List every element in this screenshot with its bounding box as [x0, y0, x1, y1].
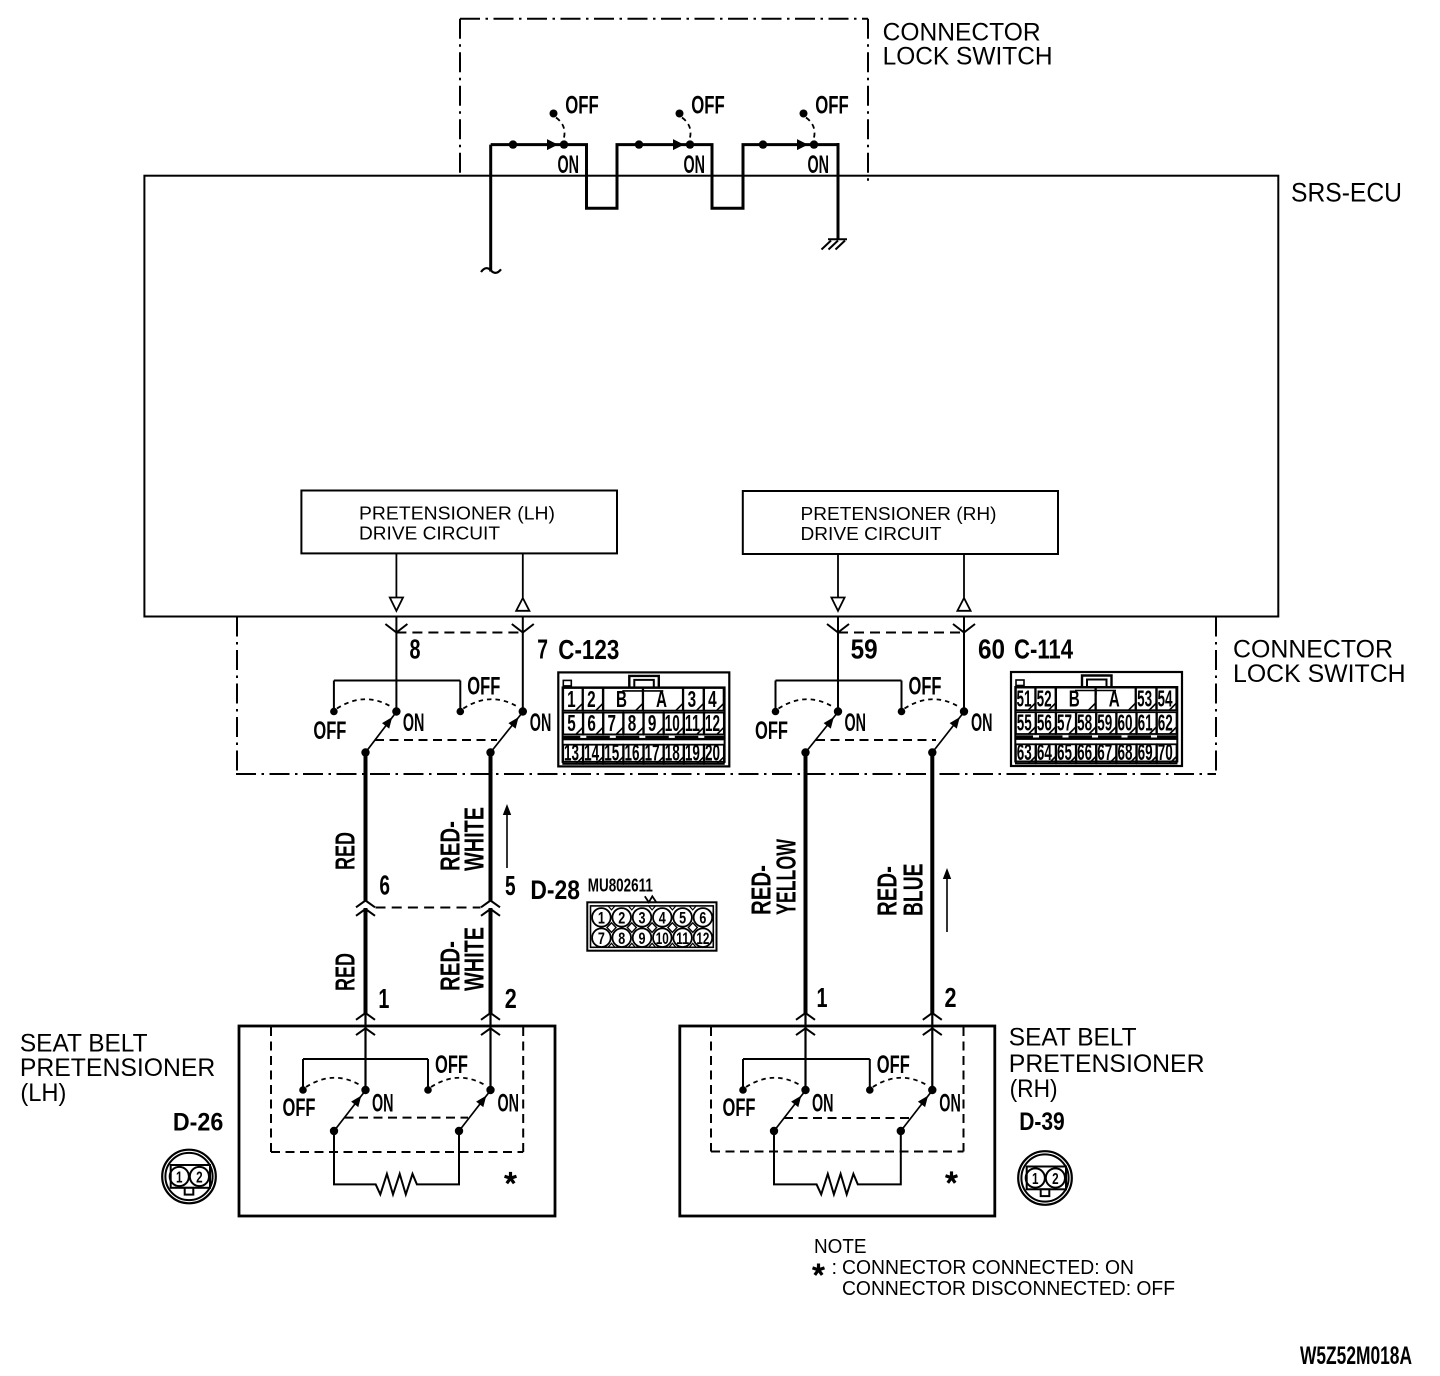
- svg-text:OFF: OFF: [815, 92, 849, 120]
- svg-text:2: 2: [618, 909, 625, 928]
- svg-text:7: 7: [537, 634, 548, 665]
- wire: pin to switch contact (RED-BLUE pin 2): [931, 1013, 933, 1090]
- svg-text:ON: ON: [403, 709, 425, 737]
- svg-text:9: 9: [648, 710, 657, 736]
- svg-text:OFF: OFF: [565, 92, 599, 120]
- dashed connector link D-28: [376, 907, 481, 909]
- switch bar feeding OFF contacts (LSW-L): [334, 681, 460, 709]
- svg-text:6: 6: [699, 909, 706, 928]
- svg-text:ON: ON: [971, 709, 993, 737]
- connector chevrons at pretensioner (RED-WHITE pin 2): [481, 1013, 500, 1035]
- wire label RED-BLUE: [872, 864, 929, 917]
- wire: pin 60 to switch: [963, 618, 965, 712]
- block: PRETENSIONER (LH) DRIVE CIRCUIT: [301, 491, 617, 554]
- svg-text:1: 1: [1032, 1171, 1039, 1188]
- resistor (squib) RH: [774, 1131, 901, 1194]
- wire: pin 59 to switch: [837, 618, 839, 712]
- svg-text:ON: ON: [530, 709, 552, 737]
- switch bar feeding OFF contacts (LSW-R): [776, 681, 902, 709]
- svg-text:NOTE: NOTE: [814, 1236, 867, 1258]
- svg-text:C-114: C-114: [1014, 634, 1073, 665]
- svg-text:OFF: OFF: [283, 1094, 316, 1122]
- svg-text:OFF: OFF: [691, 92, 725, 120]
- svg-text:5: 5: [505, 870, 516, 901]
- note marker asterisk (RH): [946, 1171, 958, 1182]
- svg-text:ON: ON: [684, 151, 706, 179]
- svg-text:OFF: OFF: [467, 673, 500, 701]
- switch SW3 (connector lock, shown ON): [759, 92, 849, 180]
- svg-text:57: 57: [1057, 710, 1072, 736]
- switch LSW-R2 (shown ON): [898, 673, 993, 757]
- svg-text:20: 20: [705, 739, 720, 765]
- switch bar feeding OFF contacts (PSW-L): [303, 1059, 428, 1087]
- svg-text:2: 2: [1052, 1171, 1059, 1188]
- svg-text:60: 60: [978, 634, 1005, 665]
- svg-text:SRS-ECU: SRS-ECU: [1291, 178, 1402, 208]
- svg-text:ON: ON: [845, 709, 867, 737]
- svg-text:PRETENSIONER (LH): PRETENSIONER (LH): [359, 504, 555, 524]
- svg-text:D-26: D-26: [173, 1108, 223, 1136]
- wire label RED-WHITE (lower): [435, 927, 490, 991]
- svg-text:1: 1: [817, 982, 828, 1013]
- svg-text:56: 56: [1037, 710, 1052, 736]
- svg-text:RED: RED: [330, 953, 361, 991]
- svg-text:OFF: OFF: [723, 1094, 756, 1122]
- resistor (squib) LH: [334, 1131, 459, 1194]
- connector chevrons at pretensioner (RED pin 1): [356, 1013, 375, 1035]
- label: CONNECTOR LOCK SWITCH (top): [883, 18, 1053, 70]
- wire: RH drive to pin 59 (female terminal): [831, 554, 844, 611]
- svg-text:54: 54: [1158, 686, 1173, 712]
- svg-text:A: A: [1109, 686, 1120, 712]
- svg-text:8: 8: [618, 929, 625, 948]
- svg-text:63: 63: [1017, 739, 1032, 765]
- svg-text:58: 58: [1077, 710, 1092, 736]
- svg-text:1: 1: [567, 686, 576, 712]
- svg-text:51: 51: [1017, 686, 1032, 712]
- svg-text:5: 5: [567, 710, 576, 736]
- svg-text:66: 66: [1077, 739, 1092, 765]
- connector D-39 face view: [1018, 1151, 1072, 1205]
- svg-text::: :: [832, 1257, 838, 1279]
- svg-text:13: 13: [564, 739, 579, 765]
- svg-text:11: 11: [685, 710, 700, 736]
- svg-text:12: 12: [696, 929, 709, 948]
- svg-text:9: 9: [639, 929, 646, 948]
- note block: [814, 1236, 1175, 1300]
- label: SEAT BELT PRETENSIONER (LH): [20, 1029, 215, 1107]
- svg-text:18: 18: [665, 739, 680, 765]
- svg-text:D-39: D-39: [1019, 1108, 1064, 1136]
- svg-text:MU802611: MU802611: [588, 875, 653, 896]
- connector chevrons at C-114: [827, 624, 975, 633]
- wire RED-WHITE (lock pole to D-28): [489, 750, 493, 901]
- svg-text:ON: ON: [498, 1090, 520, 1118]
- svg-text:7: 7: [608, 710, 617, 736]
- svg-text:7: 7: [598, 929, 605, 948]
- dashed connector link 59-60: [838, 632, 964, 634]
- wire: LH drive to pin 7 (male terminal): [516, 554, 529, 611]
- svg-text:59: 59: [1097, 710, 1112, 736]
- svg-text:1: 1: [176, 1169, 183, 1186]
- connector D-26 face view: [162, 1150, 216, 1204]
- svg-text:YELLOW: YELLOW: [771, 839, 802, 915]
- wire RED (D-28 to pretensioner pin 1): [364, 908, 368, 1013]
- svg-text:ON: ON: [812, 1090, 834, 1118]
- wire label RED-WHITE (upper): [435, 807, 490, 871]
- svg-text:(LH): (LH): [20, 1079, 66, 1107]
- signal arrow (RED-WHITE): [503, 804, 511, 868]
- svg-text:15: 15: [604, 739, 619, 765]
- svg-text:2: 2: [196, 1169, 203, 1186]
- svg-text:14: 14: [584, 739, 599, 765]
- connector lock switch (top) dash-dot enclosure: [460, 19, 868, 181]
- svg-text:10: 10: [656, 929, 669, 948]
- svg-text:2: 2: [505, 983, 517, 1014]
- svg-text:BLUE: BLUE: [898, 864, 929, 917]
- svg-text:WHITE: WHITE: [459, 807, 490, 871]
- switch SW1 (connector lock, shown ON): [509, 92, 599, 180]
- inline connector chevrons (D-28 RED): [356, 901, 375, 916]
- label: CONNECTOR LOCK SWITCH (lower): [1233, 636, 1406, 688]
- wire: drop to ground: [837, 143, 840, 239]
- svg-text:52: 52: [1037, 686, 1052, 712]
- connector MU802611 pinout drawing: [587, 896, 716, 950]
- svg-text:1: 1: [378, 983, 389, 1014]
- wire: pin 8 to switch: [395, 618, 397, 712]
- svg-text:W5Z52M018A: W5Z52M018A: [1300, 1342, 1412, 1370]
- svg-text:B: B: [616, 686, 627, 712]
- connector lock switch (lower) dash-dot enclosure: [236, 617, 1216, 775]
- svg-text:OFF: OFF: [909, 673, 942, 701]
- signal arrow (RED-BLUE): [943, 868, 951, 932]
- svg-text:59: 59: [851, 634, 878, 665]
- svg-text:(RH): (RH): [1010, 1075, 1058, 1103]
- SRS-ECU box: [144, 176, 1278, 617]
- svg-text:64: 64: [1037, 739, 1052, 765]
- wire RED (lock pole to D-28): [364, 750, 368, 901]
- dashed linkage (LH pretensioner switches): [345, 1117, 469, 1119]
- connector chevrons at pretensioner (RED-YELLOW pin 1): [796, 1013, 815, 1035]
- svg-text:3: 3: [688, 686, 697, 712]
- svg-text:60: 60: [1117, 710, 1132, 736]
- connector C-114 pinout drawing: [1011, 672, 1182, 766]
- switch LSW-L2 (shown ON): [457, 673, 552, 757]
- switch PSW-L1 (shown ON): [283, 1078, 394, 1135]
- svg-text:WHITE: WHITE: [459, 927, 490, 991]
- svg-text:LOCK SWITCH: LOCK SWITCH: [883, 43, 1053, 71]
- wire: pin to switch contact (RED pin 1): [364, 1013, 366, 1090]
- svg-text:ON: ON: [939, 1090, 961, 1118]
- svg-text:11: 11: [676, 929, 689, 948]
- wire label RED-YELLOW: [745, 839, 801, 915]
- wire RED-YELLOW (lock pole to pretensioner pin 1): [804, 750, 808, 1013]
- svg-text:67: 67: [1097, 739, 1112, 765]
- svg-text:A: A: [656, 686, 667, 712]
- switch SW2 (connector lock, shown ON): [635, 92, 725, 180]
- switch PSW-L2 (shown ON): [424, 1051, 519, 1135]
- svg-text:70: 70: [1158, 739, 1173, 765]
- svg-text:ON: ON: [808, 151, 830, 179]
- svg-text:DRIVE CIRCUIT: DRIVE CIRCUIT: [801, 524, 942, 544]
- switch LSW-R1 (shown ON): [755, 699, 866, 756]
- svg-text:OFF: OFF: [313, 717, 346, 745]
- svg-text:B: B: [1069, 686, 1080, 712]
- svg-text:SEAT BELT: SEAT BELT: [1009, 1024, 1137, 1052]
- svg-text:12: 12: [705, 710, 720, 736]
- svg-text:PRETENSIONER: PRETENSIONER: [20, 1054, 215, 1082]
- svg-text:D-28: D-28: [530, 875, 580, 905]
- svg-text:OFF: OFF: [877, 1051, 910, 1079]
- svg-text:68: 68: [1117, 739, 1132, 765]
- dashed linkage (LH lock switches): [375, 739, 497, 741]
- note marker asterisk (LH): [505, 1172, 517, 1183]
- svg-text:8: 8: [628, 710, 637, 736]
- connector chevrons at C-123: [385, 624, 533, 633]
- switch LSW-L1 (shown ON): [313, 699, 424, 756]
- svg-text:OFF: OFF: [755, 717, 788, 745]
- dashed squib outline (LH): [271, 1027, 523, 1152]
- svg-text:62: 62: [1158, 710, 1173, 736]
- svg-text:CONNECTOR CONNECTED: ON: CONNECTOR CONNECTED: ON: [842, 1257, 1134, 1279]
- svg-text:4: 4: [659, 909, 666, 928]
- svg-text:1: 1: [598, 909, 605, 928]
- svg-text:RED: RED: [330, 832, 361, 870]
- svg-text:CONNECTOR DISCONNECTED: OFF: CONNECTOR DISCONNECTED: OFF: [842, 1278, 1175, 1300]
- note asterisk: [813, 1264, 825, 1275]
- svg-text:PRETENSIONER: PRETENSIONER: [1009, 1050, 1205, 1078]
- svg-text:53: 53: [1137, 686, 1152, 712]
- svg-text:C-123: C-123: [558, 634, 619, 665]
- ground (chassis): [822, 239, 848, 249]
- dashed linkage (RH pretensioner switches): [784, 1117, 910, 1119]
- svg-text:3: 3: [639, 909, 646, 928]
- wire: LH drive to pin 8 (female terminal): [390, 554, 403, 611]
- switch bar feeding OFF contacts (PSW-R): [743, 1059, 870, 1087]
- svg-text:19: 19: [685, 739, 700, 765]
- wire RED-WHITE (D-28 to pretensioner pin 2): [489, 908, 493, 1013]
- dashed squib outline (RH): [711, 1027, 964, 1152]
- svg-text:6: 6: [379, 870, 390, 901]
- switch PSW-R1 (shown ON): [723, 1078, 834, 1135]
- connector C-123 pinout drawing: [558, 672, 729, 766]
- svg-text:OFF: OFF: [435, 1051, 468, 1079]
- svg-text:5: 5: [679, 909, 686, 928]
- dashed linkage (RH lock switches): [816, 739, 936, 741]
- svg-text:4: 4: [708, 686, 717, 712]
- svg-text:16: 16: [624, 739, 639, 765]
- svg-text:17: 17: [645, 739, 660, 765]
- seat belt pretensioner box (RH): [680, 1026, 995, 1216]
- break symbol (wire continues): [481, 268, 501, 273]
- wire: pin to switch contact (RED-YELLOW pin 1): [804, 1013, 806, 1090]
- dashed connector link 8-7: [396, 632, 522, 634]
- label: SEAT BELT PRETENSIONER (RH): [1009, 1024, 1205, 1103]
- connector chevrons at pretensioner (RED-BLUE pin 2): [923, 1013, 942, 1035]
- inline connector chevrons (D-28 RED-WHITE): [481, 901, 500, 916]
- wire: connector lock switch chain: [491, 145, 838, 209]
- seat belt pretensioner box (LH): [239, 1026, 555, 1216]
- svg-text:65: 65: [1057, 739, 1072, 765]
- svg-text:8: 8: [410, 634, 421, 665]
- svg-text:DRIVE CIRCUIT: DRIVE CIRCUIT: [359, 524, 500, 544]
- wire: RH drive to pin 60 (male terminal): [957, 554, 970, 611]
- svg-text:69: 69: [1138, 739, 1153, 765]
- svg-text:LOCK SWITCH: LOCK SWITCH: [1233, 660, 1406, 688]
- svg-text:ON: ON: [558, 151, 580, 179]
- block: PRETENSIONER (RH) DRIVE CIRCUIT: [743, 491, 1058, 554]
- svg-text:61: 61: [1138, 710, 1153, 736]
- svg-text:6: 6: [587, 710, 596, 736]
- svg-text:ON: ON: [372, 1090, 394, 1118]
- svg-text:2: 2: [945, 982, 957, 1013]
- wire RED-BLUE (lock pole to pretensioner pin 2): [930, 750, 934, 1013]
- svg-text:55: 55: [1017, 710, 1032, 736]
- svg-text:10: 10: [665, 710, 680, 736]
- svg-text:PRETENSIONER (RH): PRETENSIONER (RH): [801, 504, 997, 524]
- wire: pin 7 to switch: [522, 618, 524, 712]
- wire: drop to harness break: [489, 145, 492, 272]
- wire: pin to switch contact (RED-WHITE pin 2): [489, 1013, 491, 1090]
- svg-text:2: 2: [587, 686, 596, 712]
- switch PSW-R2 (shown ON): [866, 1051, 961, 1135]
